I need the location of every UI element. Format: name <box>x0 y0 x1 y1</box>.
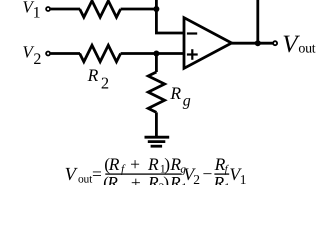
svg-text:R: R <box>169 83 181 103</box>
wire V2 terminal to R2 <box>51 52 80 55</box>
formula: Vout = (Rf+R1)Rg/((Rg+R2)R1) V2 - (Rf/R1) V1 <box>65 154 247 194</box>
wire Rg to ground <box>155 112 158 137</box>
svg-text:2: 2 <box>33 51 41 68</box>
svg-text:−: − <box>203 164 213 184</box>
svg-text:R: R <box>147 154 159 174</box>
wire R2 to op-amp plus input <box>121 52 184 55</box>
wire noninverting node down to Rg <box>155 54 158 73</box>
svg-text:g: g <box>119 182 125 185</box>
terminal V1 <box>46 7 50 11</box>
svg-text:+: + <box>131 172 141 185</box>
svg-text:R: R <box>87 65 99 85</box>
svg-text:1: 1 <box>240 172 247 185</box>
junction dot inverting node <box>153 6 159 12</box>
junction dot noninverting node <box>153 51 159 57</box>
ground bar 3 <box>151 145 163 148</box>
svg-text:R: R <box>169 172 181 185</box>
svg-text:): ) <box>163 172 169 185</box>
wire inverting node down to op-amp minus input <box>156 9 184 33</box>
op-amp plus sign <box>187 49 198 60</box>
terminal Vout <box>273 41 277 45</box>
ground bar 2 <box>148 140 166 143</box>
resistor Rg <box>148 72 164 112</box>
svg-text:2: 2 <box>101 74 109 93</box>
svg-text:R: R <box>108 154 120 174</box>
op-amp U1 <box>184 18 232 69</box>
ground bar 1 <box>145 136 170 139</box>
svg-text:2: 2 <box>193 172 200 185</box>
wire feedback stub up from inverting node (cut by top edge) <box>155 0 158 9</box>
svg-text:R: R <box>106 172 118 185</box>
wire op-amp output <box>232 42 273 45</box>
formula fraction 2 bar <box>214 173 229 174</box>
svg-text:out: out <box>298 42 315 57</box>
svg-text:+: + <box>130 154 140 174</box>
terminal V2 <box>46 52 50 56</box>
svg-text:out: out <box>78 174 93 186</box>
resistor R2 <box>80 45 121 61</box>
wire V1 terminal to R1 <box>51 8 80 11</box>
svg-text:R: R <box>147 172 159 185</box>
resistor R1 <box>80 1 121 17</box>
svg-text:1: 1 <box>33 4 41 21</box>
svg-text:=: = <box>92 164 102 184</box>
wire feedback stub up from output node (cut by top edge) <box>256 0 259 43</box>
junction dot output node <box>255 40 261 46</box>
wire R1 to inverting node <box>121 8 157 11</box>
formula fraction 1 bar <box>105 173 181 174</box>
op-amp minus sign <box>187 32 197 34</box>
svg-text:R: R <box>213 172 225 185</box>
svg-text:): ) <box>164 154 170 174</box>
svg-text:g: g <box>183 93 191 110</box>
